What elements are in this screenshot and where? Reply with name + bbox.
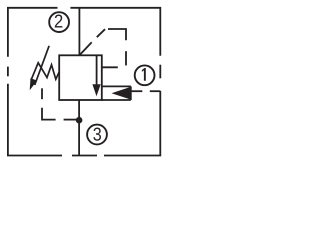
check valve channel bottom line xyxy=(102,99,131,101)
main valve body square xyxy=(59,55,102,100)
spring pilot drain dash a xyxy=(41,88,43,99)
flow arrow head xyxy=(92,84,100,96)
spring pilot drain dash b with corner xyxy=(42,108,56,120)
spring zigzag xyxy=(31,63,59,80)
port 3 label digit xyxy=(93,128,101,141)
pilot line diagonal dash b xyxy=(97,29,105,37)
port 3 line xyxy=(78,100,80,156)
check valve channel top line xyxy=(102,85,131,87)
pilot line top dash with corner xyxy=(108,29,126,40)
port 2 circle xyxy=(49,12,69,32)
valve envelope frame right dash xyxy=(159,65,161,79)
pilot line diagonal dash a xyxy=(80,42,92,55)
junction dot xyxy=(76,117,83,124)
port 1 circle xyxy=(135,65,155,85)
valve envelope frame bottom-right corner and right lower segment xyxy=(104,91,160,156)
valve envelope frame top-left corner xyxy=(8,8,58,57)
pilot line right vertical dash xyxy=(125,51,127,65)
valve envelope frame bottom-left corner and bottom segment xyxy=(8,84,62,156)
adjustment arrow stem xyxy=(35,46,49,85)
spring pilot drain dash c xyxy=(64,119,80,121)
port 1 label digit xyxy=(142,68,146,81)
valve envelope frame top-right corner and top segment xyxy=(70,8,160,56)
check valve channel right edge xyxy=(130,86,132,100)
port 2 label digit xyxy=(55,15,63,28)
flow arrow shaft xyxy=(96,55,98,85)
check valve poppet triangle xyxy=(112,87,131,100)
port 3 circle xyxy=(87,125,107,145)
adjustment arrow head xyxy=(30,78,37,90)
pilot line right horizontal dash xyxy=(102,66,118,68)
port 1 line dash a xyxy=(131,90,143,92)
port 1 line dash b xyxy=(150,90,161,92)
port 2 line xyxy=(78,8,80,56)
valve envelope frame bottom dash xyxy=(72,155,97,157)
valve envelope frame left dash xyxy=(7,67,9,77)
